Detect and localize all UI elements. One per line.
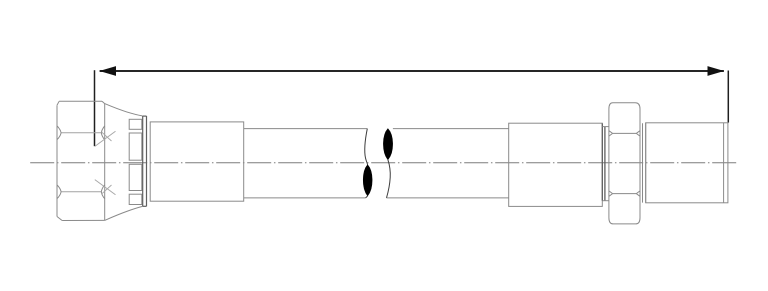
- hex top-right chamfer: [102, 101, 105, 103]
- crimp notch rect 4: [129, 194, 142, 204]
- right socket end cap line 2: [604, 127, 606, 201]
- hex right edge: [104, 104, 106, 221]
- right socket shell: [509, 123, 603, 206]
- break line left: [365, 129, 368, 165]
- hex outline: [609, 103, 640, 224]
- ferrule band (left fitting): [143, 116, 147, 206]
- crimp notch rect 3: [129, 164, 142, 190]
- break line left tail: [366, 196, 368, 198]
- hex bottom edge: [62, 219, 105, 221]
- right socket end cap line 1: [601, 124, 603, 201]
- right fitting hex nut: [609, 103, 640, 224]
- male end inner end line: [723, 123, 725, 203]
- hex division line upper: [61, 132, 101, 134]
- hex division wedge lower-right: [636, 191, 640, 196]
- cone flat diagonal lower long: [95, 180, 116, 195]
- hex division wedge upper-left: [609, 131, 613, 136]
- break eye right: [383, 129, 392, 160]
- chamfer arc lower-right: [101, 185, 104, 199]
- left fitting: hex nut outline: [57, 101, 142, 220]
- washer band between hex and male end: [643, 123, 646, 203]
- hex division line upper: [613, 132, 636, 134]
- left socket shell: [150, 122, 244, 201]
- right arrowhead: [708, 66, 725, 76]
- male end cylinder: [646, 123, 728, 203]
- break line right: [387, 160, 391, 198]
- left arrowhead: [99, 66, 116, 76]
- cone flat diagonal upper long: [95, 131, 116, 146]
- chamfer arc upper-right: [101, 126, 104, 140]
- chamfer arc upper-left: [57, 126, 61, 140]
- centerline: [30, 162, 737, 164]
- break eye left: [363, 165, 372, 196]
- crimp notch rect 1: [129, 119, 142, 129]
- cone flat diagonal upper short: [102, 132, 112, 141]
- hex division line lower: [613, 193, 636, 195]
- hose upper line (right of break): [393, 128, 509, 130]
- left extension line: [94, 70, 96, 146]
- hose upper line (left of break): [244, 128, 368, 130]
- chamfer arc lower-left: [57, 185, 61, 199]
- cone bottom edge: [105, 206, 143, 220]
- hex bottom-left chamfer: [57, 217, 62, 221]
- right extension line: [727, 71, 729, 123]
- hex division wedge lower-left: [609, 191, 613, 196]
- crimp notch rect 2: [129, 133, 142, 160]
- right socket cap bottom stub: [602, 200, 609, 202]
- cone top edge: [105, 104, 143, 116]
- right socket cap top stub: [602, 126, 609, 128]
- cone flat diagonal lower short: [102, 185, 112, 194]
- hose lower line (right of break): [387, 197, 509, 199]
- hose lower line (left of break): [244, 197, 366, 199]
- hex top edge: [59, 100, 102, 102]
- hex division line lower: [61, 191, 101, 193]
- hex top-left chamfer: [57, 101, 59, 105]
- dimension line: [100, 70, 724, 72]
- hex left edge: [56, 105, 58, 216]
- hex division wedge upper-right: [636, 131, 640, 136]
